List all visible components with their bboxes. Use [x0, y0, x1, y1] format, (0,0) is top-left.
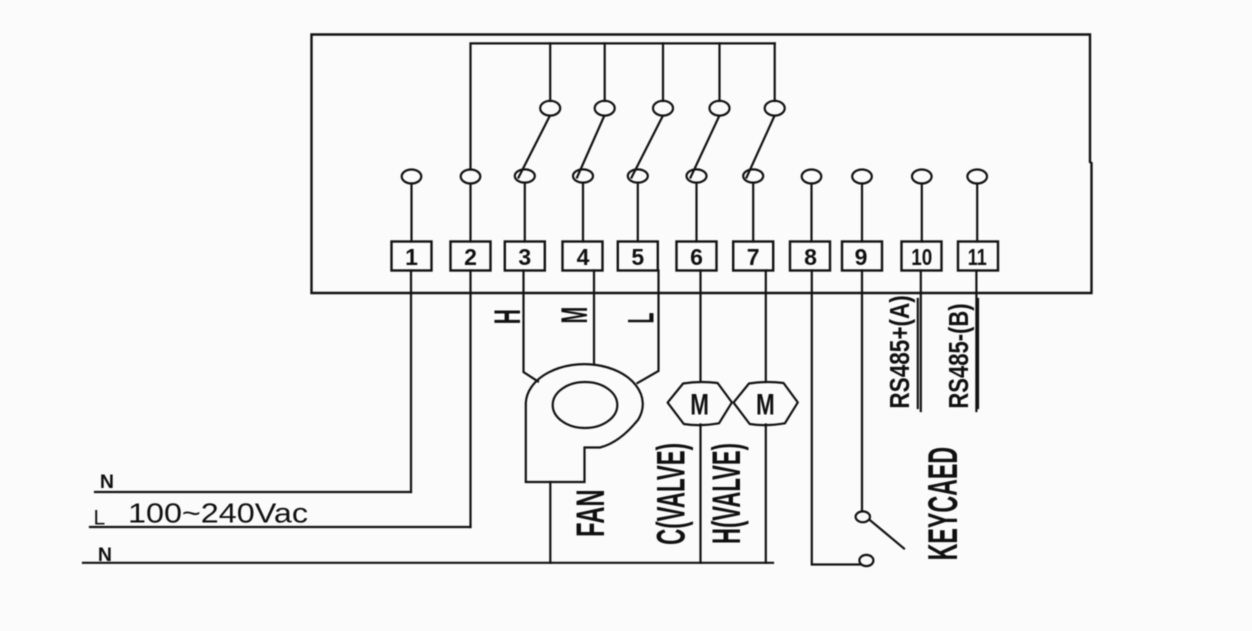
fan volute outline [526, 364, 643, 482]
wire terminal 10 (RS485+) [920, 271, 922, 412]
svg-text:9: 9 [855, 244, 868, 270]
svg-text:6: 6 [690, 244, 703, 270]
terminal 10 contact circle [912, 170, 932, 184]
svg-text:5: 5 [631, 244, 644, 270]
svg-text:L: L [620, 313, 661, 324]
bus stub wire to switch 6 [718, 43, 720, 101]
wire circle to box 10 [921, 184, 923, 242]
svg-text:3: 3 [518, 244, 531, 270]
wire terminal 7 to H valve [765, 271, 767, 382]
svg-text:7: 7 [747, 244, 760, 270]
svg-text:4: 4 [577, 244, 590, 270]
wire terminal 4 to fan (M) [593, 271, 595, 364]
svg-text:100~240Vac: 100~240Vac [128, 497, 308, 528]
svg-text:RS485+(A): RS485+(A) [884, 295, 915, 408]
RS485+(A) underline [917, 299, 919, 408]
bus stub wire to switch 3 [549, 43, 551, 101]
terminal box 9 [842, 242, 882, 271]
svg-text:RS485-(B): RS485-(B) [943, 303, 974, 408]
wire terminal 1 to N line [410, 271, 412, 493]
svg-text:FAN: FAN [569, 489, 613, 537]
wire terminal 5 to fan (L) [638, 271, 659, 384]
svg-text:11: 11 [968, 244, 987, 270]
RS485-(B) underline [977, 299, 979, 408]
svg-text:N: N [98, 544, 112, 566]
terminal box 2 [451, 242, 491, 271]
wire terminal 3 to fan (H) [524, 271, 539, 382]
terminal box 10 [902, 242, 942, 271]
motor C valve body [668, 382, 732, 425]
N line (top, to terminal 1) [95, 491, 411, 493]
svg-text:N: N [100, 471, 114, 493]
switch 6 upper contact circle [710, 101, 730, 116]
terminal 8 contact circle [802, 170, 822, 184]
keycard switch lower contact circle [859, 555, 873, 566]
wire H valve to N line [765, 425, 767, 563]
terminal box 1 [392, 242, 432, 271]
terminal 4 contact circle [573, 169, 593, 182]
switch 5 blade [632, 117, 663, 178]
switch 4 upper contact circle [595, 101, 615, 116]
wire terminal 2 to L line [469, 271, 471, 528]
bus stub wire to switch 5 [662, 43, 664, 101]
svg-text:1: 1 [405, 244, 418, 270]
terminal 7 contact circle [743, 169, 763, 182]
terminal 11 contact circle [967, 170, 987, 184]
switch 6 blade [691, 117, 720, 178]
wire circle to box 9 [861, 184, 863, 242]
wire fan outlet to N line [549, 482, 551, 563]
switch 7 blade [747, 117, 775, 178]
wire circle to box 3 [524, 183, 526, 242]
svg-text:H(VALVE): H(VALVE) [705, 443, 749, 544]
wire terminal 6 to C valve [699, 271, 701, 382]
terminal 9 contact circle [852, 170, 872, 184]
bus stub wire to switch 4 [604, 43, 606, 101]
terminal 3 contact circle [515, 169, 535, 182]
terminal 2 contact circle [461, 170, 481, 184]
bus wire (top common line for switches) [471, 43, 775, 169]
terminal box 5 [618, 242, 658, 271]
terminal box 8 [790, 242, 830, 271]
fan inner rotor circle [553, 382, 618, 428]
L line (to terminal 2) [90, 526, 471, 528]
wire circle to box 7 [752, 183, 754, 242]
wire circle to box 11 [976, 184, 978, 242]
switch 3 blade [519, 117, 550, 178]
svg-text:10: 10 [911, 244, 932, 270]
svg-text:L: L [94, 507, 106, 530]
wire terminal 11 (RS485-) [975, 271, 977, 412]
wire terminal 8 to N line [812, 271, 860, 565]
svg-text:M: M [690, 389, 709, 422]
svg-text:M: M [554, 307, 595, 324]
wire circle to box 5 [637, 183, 639, 242]
keycard switch blade [870, 520, 904, 549]
terminal box 6 [677, 242, 717, 271]
N line (bottom) [83, 562, 773, 564]
wire terminal 9 to keycard switch [861, 271, 863, 512]
wire circle to box 6 [695, 183, 697, 242]
wire circle to box 8 [810, 184, 812, 242]
wire circle to box 2 [469, 184, 471, 242]
switch 4 blade [577, 117, 604, 178]
svg-text:KEYCAED: KEYCAED [919, 447, 966, 561]
bus stub wire to switch 7 [774, 43, 776, 101]
keycard switch upper contact circle [856, 511, 870, 522]
svg-text:8: 8 [804, 244, 817, 270]
terminal box 11 [958, 242, 998, 271]
svg-text:2: 2 [464, 244, 477, 270]
svg-text:M: M [756, 389, 775, 422]
terminal 6 contact circle [687, 169, 707, 182]
wire circle to box 1 [410, 184, 412, 242]
terminal box 7 [733, 242, 773, 271]
wire C valve to N line [699, 425, 701, 563]
terminal box 3 [505, 242, 545, 271]
terminal 5 contact circle [628, 169, 648, 182]
switch 3 upper contact circle [540, 101, 560, 116]
switch 7 upper contact circle [765, 101, 785, 116]
svg-text:C(VALVE): C(VALVE) [650, 443, 694, 545]
svg-text:H: H [487, 309, 528, 324]
motor H valve body [734, 382, 798, 425]
terminal box 4 [563, 242, 603, 271]
wire circle to box 4 [582, 183, 584, 242]
terminal 1 contact circle [402, 170, 422, 184]
controller outline rectangle [312, 35, 1092, 294]
switch 5 upper contact circle [653, 101, 673, 116]
